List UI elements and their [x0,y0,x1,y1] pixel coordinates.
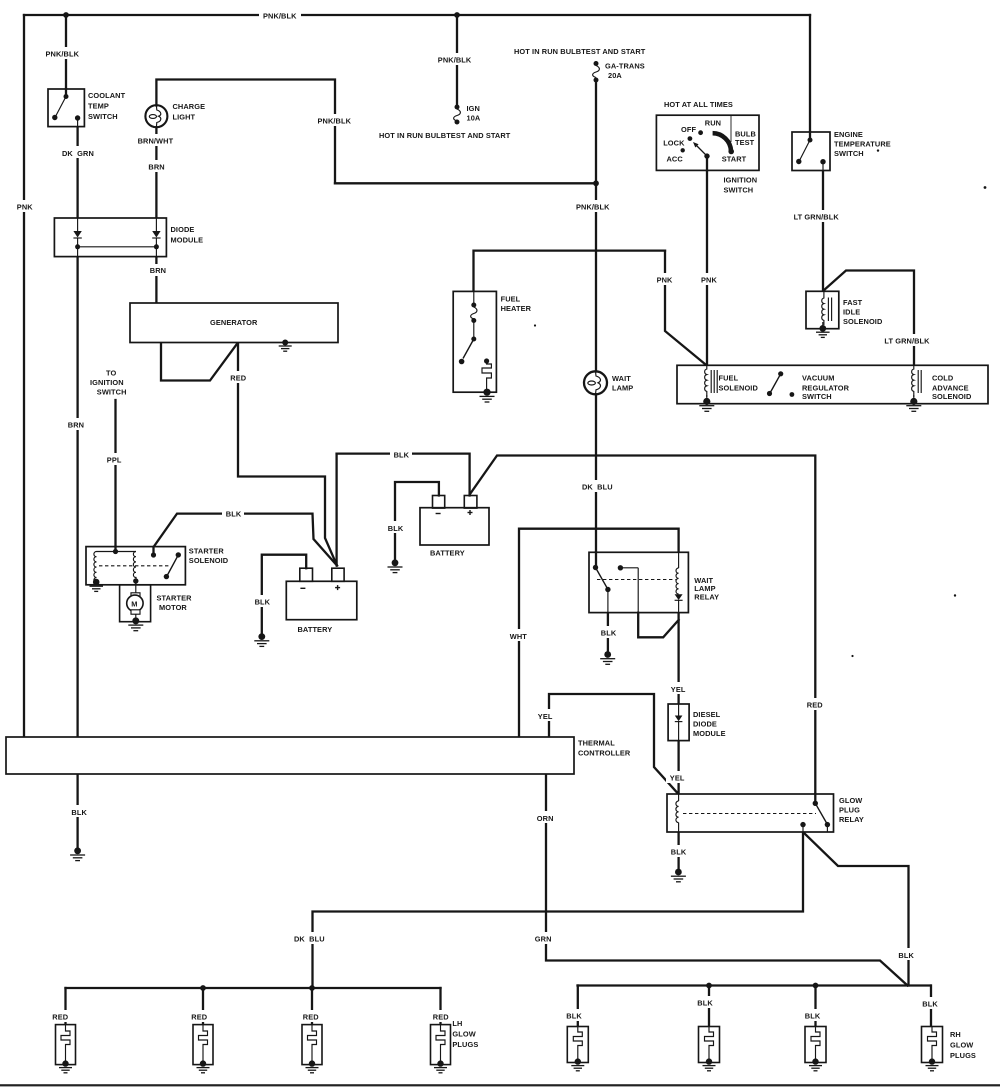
net label RED LH plug 4 [429,1010,452,1022]
svg-text:DK GRN: DK GRN [62,149,94,158]
engine temperature switch box [792,132,830,171]
GA-TRANS 20A fuse [593,61,600,83]
svg-text:BRN: BRN [68,421,84,430]
svg-text:RED: RED [433,1012,449,1021]
svg-text:LAMP: LAMP [612,383,633,392]
svg-text:20A: 20A [608,71,622,80]
glow plug relay box [667,794,834,832]
label glow plug relay [839,796,864,824]
wire PNK/BLK drop to coolant temp switch [65,15,67,89]
fast idle solenoid coil [822,291,832,325]
net label BLK starter solenoid link [222,507,244,519]
svg-text:PNK: PNK [657,276,673,285]
svg-text:SWITCH: SWITCH [802,392,832,401]
wire PNK ignition START to fuel solenoid [706,170,708,365]
wait lamp [584,371,607,394]
wire RH glow plug drop 1 [577,986,579,1027]
svg-text:SWITCH: SWITCH [97,388,127,397]
svg-text:START: START [722,154,747,163]
svg-text:PPL: PPL [107,456,122,465]
label diesel diode module [693,710,726,738]
wire BRN diode module down to thermal controller [76,257,78,737]
wait lamp relay ground [600,651,615,664]
label wait lamp relay [694,576,719,602]
net label BLK battery link [390,448,412,460]
svg-text:RELAY: RELAY [694,592,719,601]
svg-text:MOTOR: MOTOR [159,603,187,612]
svg-text:PNK/BLK: PNK/BLK [438,56,472,65]
net label PNK left vertical [14,200,35,212]
wire PNK/BLK drop to IGN fuse [456,15,458,105]
svg-text:MODULE: MODULE [171,235,204,244]
wire YEL diesel diode module to glow plug relay [677,741,679,794]
svg-text:BLK: BLK [226,510,242,519]
fuel solenoid / vacuum regulator switch / cold advance solenoid box [677,365,988,403]
junction LH bus 3 [309,985,315,991]
wire LH glow plug drop 4 [439,988,441,1025]
svg-text:ACC: ACC [667,154,684,163]
vacuum regulator switch contacts [767,371,794,397]
net label ORN [533,811,559,823]
junction PNK/BLK tee [593,180,599,186]
svg-text:GENERATOR: GENERATOR [210,318,258,327]
svg-text:LIGHT: LIGHT [173,112,196,121]
wire RED generator to battery positive [238,343,337,566]
net label BLK RH plug 2 [694,996,716,1008]
wire PNK/BLK horizontal into junction [335,182,596,184]
wire BLK battery to battery horizontal [337,454,470,496]
net label YEL wait lamp relay out [667,682,689,694]
svg-text:LT GRN/BLK: LT GRN/BLK [794,213,840,222]
fast idle solenoid ground [816,322,830,337]
net label YEL diode module out [666,771,688,783]
svg-text:BATTERY: BATTERY [298,625,333,634]
LH glow plug 3 [302,1025,322,1073]
engine temperature switch contacts and arm [796,132,826,171]
wait lamp relay box [589,552,688,612]
svg-text:ORN: ORN [537,814,554,823]
svg-text:RED: RED [807,701,823,710]
starter solenoid main contacts [164,552,181,579]
wait lamp relay dashed link [597,579,676,581]
battery 1 box [286,568,357,620]
svg-text:PLUG: PLUG [839,805,860,814]
glow plug relay coil [676,794,679,832]
svg-text:BLK: BLK [697,999,713,1008]
RH glow plug 4 [922,1027,943,1071]
wire LH glow plug drop 3 [311,988,313,1025]
fuel solenoid ground [699,395,714,411]
net label BRN/WHT [134,134,178,146]
svg-text:M: M [131,599,137,608]
IGN 10A fuse [454,105,461,125]
LH glow plug 2 [193,1025,213,1073]
wait lamp relay switch [593,552,638,612]
wire BLK starter solenoid to battery positive [154,514,338,566]
wire PNK/BLK drop to engine temperature switch [809,15,811,132]
svg-text:TEMP: TEMP [88,102,109,111]
svg-text:10A: 10A [467,113,481,122]
svg-text:FAST: FAST [843,298,863,307]
svg-text:FUEL: FUEL [719,373,739,382]
svg-text:DIODE: DIODE [693,719,717,728]
net label BLK wait lamp relay ground [597,626,619,638]
diode module internal bus [78,246,157,248]
wire GA-TRANS fuse stem down [595,82,597,183]
net label RED LH plug 3 [299,1010,322,1022]
svg-text:COOLANT: COOLANT [88,91,126,100]
starter solenoid pull-in coil [94,552,97,583]
junction RH bus 3 [813,983,819,989]
net label PNK fuel solenoid 2 [698,273,720,285]
label fast idle solenoid [843,298,883,326]
wire battery 2 negative strap [395,482,439,560]
svg-text:PNK/BLK: PNK/BLK [318,117,352,126]
cold advance solenoid ground [906,395,921,411]
starter solenoid battery stud junction [152,547,154,555]
svg-text:CHARGE: CHARGE [173,102,206,111]
net label BRN below diode module [146,264,170,276]
svg-text:BLK: BLK [898,951,914,960]
wire LH glow plug bus [66,987,441,989]
speck near wait lamp relay [954,594,956,596]
ignition switch key arm with arrow [693,142,707,156]
label LH glow plugs [452,1019,478,1049]
svg-text:COLD: COLD [932,373,954,382]
fast idle solenoid box [806,291,839,328]
diesel diode module box [668,704,689,741]
label vacuum regulator switch [802,373,850,401]
starter motor M [127,581,143,620]
svg-text:ENGINE: ENGINE [834,130,863,139]
svg-text:IGNITION: IGNITION [724,176,758,185]
net label RED LH plug 2 [188,1010,211,1022]
thermal controller box [6,737,574,774]
svg-text:BATTERY: BATTERY [430,548,465,557]
net label WHT [506,629,533,641]
wire battery 2 positive to glow plug relay feed [470,456,815,795]
svg-text:RH: RH [950,1030,961,1039]
starter solenoid coil feed junction [97,547,137,555]
net label PNK/BLK top bus [259,9,301,21]
net label BLK battery 2 ground [384,521,406,533]
svg-text:SOLENOID: SOLENOID [843,317,883,326]
svg-text:DIESEL: DIESEL [693,710,721,719]
svg-text:SOLENOID: SOLENOID [719,383,759,392]
net label YEL thermal controller [534,709,556,721]
svg-text:RED: RED [191,1012,207,1021]
label engine temperature switch [834,130,891,158]
svg-text:TO: TO [106,368,116,377]
ignition switch bulb test arc [713,133,734,154]
wire BLK glow plug relay output to RH glow plugs [804,833,909,986]
battery 2 box [420,496,489,546]
wire LT GRN/BLK branch to cold advance solenoid [823,271,914,366]
glow plug relay contacts [800,794,830,832]
net label PNK/BLK coolant drop [42,47,84,59]
coolant temp switch contacts and arm [52,89,80,127]
wire LT GRN/BLK engine temp switch to fast idle solenoid [822,171,824,292]
net label RED LH plug 1 [49,1010,72,1022]
svg-text:BLK: BLK [601,629,617,638]
wire BLK wait lamp relay switch to ground [607,613,609,652]
svg-text:IDLE: IDLE [843,308,860,317]
ignition switch START output stub [706,156,708,170]
label starter motor [157,593,193,612]
battery 1 ground [254,633,269,646]
net label PPL [103,453,125,465]
svg-text:PNK/BLK: PNK/BLK [576,203,610,212]
wire DK GRN coolant switch to diode module [76,127,78,218]
svg-text:RUN: RUN [705,118,721,127]
svg-text:BLK: BLK [71,808,87,817]
wire YEL wait lamp relay to diesel diode module [677,613,679,704]
wire BLK glow plug relay coil ground lead [677,832,679,869]
label ignition switch [724,176,758,195]
wire LH glow plug drop 1 [64,988,66,1025]
wire WHT thermal controller to wait lamp relay coil [519,529,679,737]
RH glow plug 1 [567,1027,588,1071]
LH glow plug 4 [431,1025,451,1073]
wire YEL thermal controller branch to glow plug relay [549,694,678,794]
starter solenoid motor junction [133,578,138,583]
svg-text:BLK: BLK [388,524,404,533]
svg-text:STARTER: STARTER [189,546,225,555]
svg-text:LH: LH [452,1019,462,1028]
wire PNK/BLK top bus horizontal [24,14,810,16]
wire fuel heater feed horizontal [474,251,666,292]
svg-text:HOT IN RUN BULBTEST AND START: HOT IN RUN BULBTEST AND START [514,47,646,56]
svg-text:BLK: BLK [255,598,271,607]
starter motor housing [120,585,151,622]
svg-text:RED: RED [303,1012,319,1021]
fuel solenoid coil [705,365,718,397]
label coolant temp switch [88,91,126,121]
wire BRN diode module to generator [155,257,157,303]
net label BLK battery 1 ground [251,595,273,607]
net label BLK RH glow plug feed [895,948,917,960]
label GA-TRANS 20A fuse [605,61,645,80]
svg-text:LOCK: LOCK [663,139,685,148]
label ignition switch positions [663,118,756,163]
starter solenoid coil ground [90,579,104,592]
wire PNK long left vertical to thermal controller [23,15,25,737]
speck near fuel heater [534,324,536,326]
net label LT GRN/BLK cold advance [881,334,937,346]
svg-text:GLOW: GLOW [452,1029,475,1038]
starter solenoid plunger dashed link [99,565,171,567]
svg-text:RED: RED [52,1012,68,1021]
svg-text:BLK: BLK [671,847,687,856]
starter solenoid box [86,547,185,585]
fuel heater box [453,291,496,392]
svg-text:HOT AT ALL TIMES: HOT AT ALL TIMES [664,100,733,109]
diode module diode 2 [152,218,160,257]
net label BLK thermal controller ground [68,805,90,817]
svg-text:DK BLU: DK BLU [582,483,613,492]
net label RED glow plug relay feed [803,698,826,710]
svg-text:OFF: OFF [681,125,696,134]
svg-text:YEL: YEL [671,685,686,694]
svg-text:BRN: BRN [150,266,166,275]
label diode module [171,225,204,244]
wire battery 1 negative strap [262,555,306,634]
diode module diode 1 [73,218,81,257]
svg-text:SWITCH: SWITCH [88,112,118,121]
bottom page border [0,1084,1000,1086]
svg-text:GA-TRANS: GA-TRANS [605,61,645,70]
svg-text:HEATER: HEATER [501,304,532,313]
net label DK BLU wait lamp [578,480,616,492]
svg-text:HOT IN RUN BULBTEST AND START: HOT IN RUN BULBTEST AND START [379,131,511,140]
svg-text:WAIT: WAIT [612,374,631,383]
thermal controller ground [70,847,85,860]
junction RH bus 2 [706,983,712,989]
starter motor ground [128,617,143,630]
svg-text:IGN: IGN [467,104,480,113]
svg-text:DK BLU: DK BLU [294,935,325,944]
label fuel heater [501,294,532,313]
wire BLK thermal controller ground lead [76,774,78,848]
wire RH glow plug bus [578,984,931,986]
svg-text:BRN: BRN [148,163,164,172]
net label PNK/BLK fuse drop [434,53,476,65]
fuel heater internal fuse [471,291,477,323]
starter solenoid hold-in coil [133,552,136,581]
svg-text:SWITCH: SWITCH [834,149,864,158]
wire PNK/BLK junction down to wait lamp [595,183,597,371]
svg-text:RED: RED [230,374,246,383]
label thermal controller [578,738,631,757]
net label PNK/BLK wait lamp feed [572,200,614,212]
wire BRN/WHT charge light to diode module [155,128,157,219]
glow plug relay dashed link [683,813,816,815]
net label BLK RH plug 1 [563,1009,585,1021]
RH glow plug 3 [805,1027,826,1071]
wire LH glow plug drop 2 [202,988,204,1025]
wire generator output loop [161,343,238,381]
svg-text:FUEL: FUEL [501,294,521,303]
net label LT GRN/BLK engine temp switch [790,210,846,222]
label cold advance solenoid [932,373,972,401]
svg-text:DIODE: DIODE [171,225,195,234]
svg-text:BLK: BLK [394,450,410,459]
charge light U1 [145,105,167,127]
svg-text:PNK: PNK [17,203,33,212]
label starter solenoid [189,546,229,565]
net label GRN [531,932,556,944]
net label RED generator output [227,371,250,383]
svg-text:WHT: WHT [510,632,528,641]
svg-text:MODULE: MODULE [693,729,726,738]
label fuel solenoid [719,373,759,392]
svg-text:YEL: YEL [538,712,553,721]
svg-text:IGNITION: IGNITION [90,378,124,387]
svg-text:PNK/BLK: PNK/BLK [263,12,297,21]
generator box [130,303,338,343]
coolant temp switch box [48,89,84,127]
wire wait lamp relay contact loop to YEL [637,568,639,613]
speck right margin [984,186,987,189]
net label BRN left vertical [64,418,88,430]
generator case ground [279,340,292,352]
svg-text:GLOW: GLOW [950,1040,973,1049]
wire RH glow plug drop 4 [930,986,932,1027]
net label BLK RH plug 4 [919,997,941,1009]
svg-text:TEMPERATURE: TEMPERATURE [834,139,891,148]
wire PPL to ignition switch feed of starter solenoid [114,400,116,552]
svg-text:STARTER: STARTER [157,593,193,602]
label IGN 10A fuse [467,104,481,123]
svg-text:LT GRN/BLK: LT GRN/BLK [884,337,930,346]
speck mid right [851,655,853,657]
net label DK GRN [58,146,96,158]
svg-text:GLOW: GLOW [839,796,862,805]
net label BRN charge light [145,160,169,172]
svg-text:PLUGS: PLUGS [950,1051,976,1060]
label to ignition switch [90,368,127,396]
svg-text:BLK: BLK [805,1011,821,1020]
ignition switch box [656,115,759,170]
junction top bus at IGN fuse drop [454,12,460,18]
svg-text:GRN: GRN [535,935,552,944]
svg-text:BLK: BLK [922,999,938,1008]
svg-text:SOLENOID: SOLENOID [932,392,972,401]
svg-text:SWITCH: SWITCH [724,186,754,195]
net label DK BLU LH glow plugs [290,932,328,944]
net label BLK RH plug 3 [801,1009,823,1021]
fuel heater thermal switch [459,321,476,365]
label charge light [173,102,206,122]
svg-text:TEST: TEST [735,138,755,147]
label wait lamp [612,374,633,393]
wire DK BLU glow plug relay output to LH glow plugs [313,832,804,988]
wire ORN GRN thermal controller to RH glow plugs [546,774,908,986]
svg-text:PNK/BLK: PNK/BLK [46,50,80,59]
diode module box [54,218,166,257]
cold advance solenoid coil [912,365,922,397]
wire DK BLU wait lamp down to wait lamp relay [595,395,597,566]
wire RH glow plug drop 2 [708,986,710,1027]
battery 2 ground [388,559,403,572]
fuel heater ground [480,389,495,402]
label RH glow plugs [950,1030,976,1060]
fuel heater element [482,358,491,389]
svg-text:PLUGS: PLUGS [452,1040,478,1049]
svg-text:THERMAL: THERMAL [578,738,615,747]
net label BLK glow plug relay ground [667,845,689,857]
wire PNK to fuel solenoid [665,251,707,366]
junction LH bus 2 [200,985,206,991]
net label PNK/BLK charge light feed [314,114,356,126]
glow plug relay coil ground [671,869,686,882]
net label PNK fuel solenoid 1 [653,273,675,285]
RH glow plug 2 [699,1027,720,1071]
wait lamp relay coil and diode [675,552,683,612]
ignition switch contacts OFF RUN LOCK ACC [681,130,710,159]
wire charge light top to PNK/BLK feed [156,80,335,184]
svg-text:RELAY: RELAY [839,815,864,824]
svg-text:SOLENOID: SOLENOID [189,556,229,565]
LH glow plug 1 [56,1025,76,1073]
svg-text:YEL: YEL [670,773,685,782]
wire BLK battery positive riser [335,454,337,566]
svg-text:BRN/WHT: BRN/WHT [138,137,174,146]
svg-text:PNK: PNK [701,276,717,285]
wire RH glow plug drop 3 [814,986,816,1027]
svg-text:VACUUM: VACUUM [802,373,835,382]
diesel diode [675,704,683,741]
